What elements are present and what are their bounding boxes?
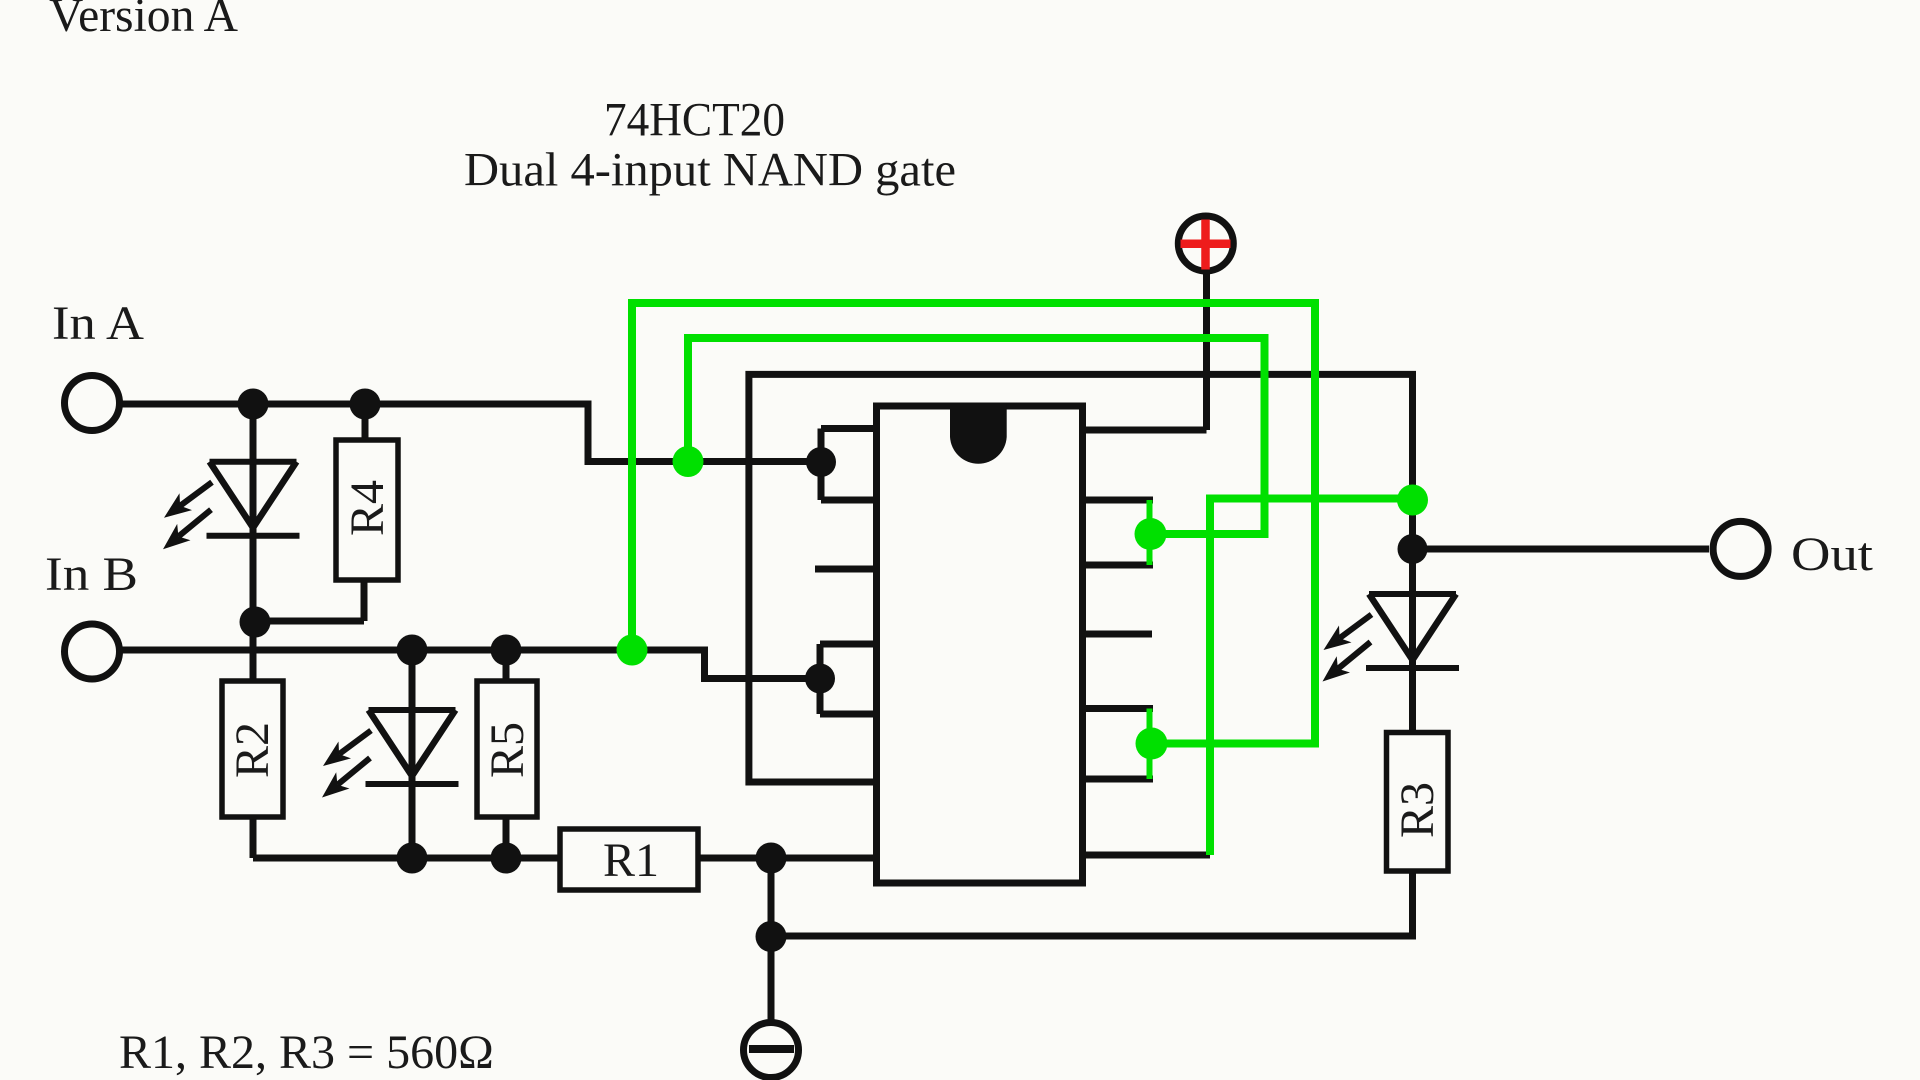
svg-text:Out: Out [1791, 528, 1874, 581]
svg-text:Dual 4-input NAND gate: Dual 4-input NAND gate [464, 144, 956, 197]
svg-text:In B: In B [45, 548, 138, 601]
svg-text:R1: R1 [603, 834, 659, 887]
svg-text:R1, R2, R3 = 560Ω: R1, R2, R3 = 560Ω [119, 1026, 494, 1079]
svg-text:In A: In A [52, 297, 144, 350]
svg-text:R3: R3 [1391, 782, 1444, 838]
svg-text:Version A: Version A [49, 0, 238, 42]
svg-text:74HCT20: 74HCT20 [604, 94, 785, 147]
svg-text:R2: R2 [226, 722, 279, 778]
svg-text:R5: R5 [481, 722, 534, 778]
svg-text:R4: R4 [341, 480, 394, 536]
